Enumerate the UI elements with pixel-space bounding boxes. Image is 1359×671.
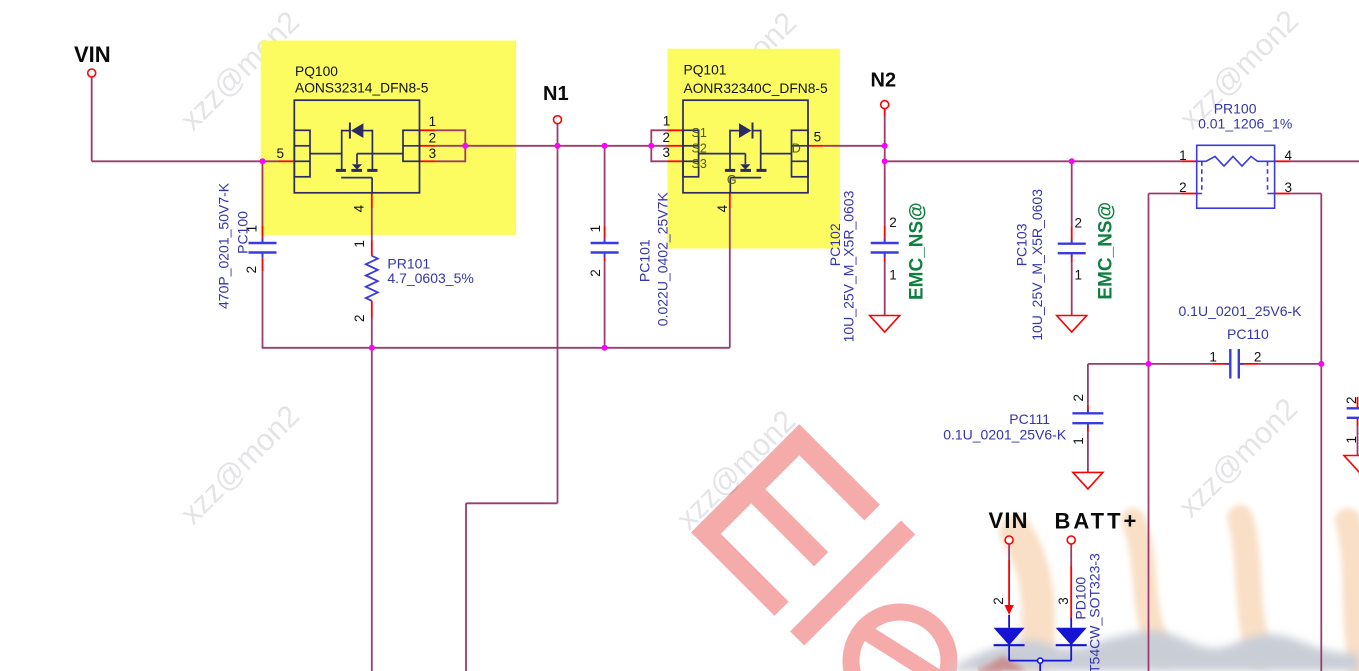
svg-text:S1: S1 <box>692 126 707 140</box>
svg-text:EMC_NS@: EMC_NS@ <box>1096 202 1117 300</box>
svg-text:PR100: PR100 <box>1214 101 1257 117</box>
svg-text:3: 3 <box>662 145 670 160</box>
svg-text:PQ100: PQ100 <box>295 64 338 79</box>
svg-text:T54CW_SOT323-3: T54CW_SOT323-3 <box>1087 553 1103 671</box>
svg-text:4: 4 <box>352 204 367 212</box>
svg-text:4: 4 <box>715 204 730 212</box>
svg-text:2: 2 <box>1071 394 1086 402</box>
svg-text:N1: N1 <box>543 83 569 105</box>
svg-text:S3: S3 <box>692 157 707 171</box>
svg-text:D: D <box>792 142 801 156</box>
svg-text:470P_0201_50V7-K: 470P_0201_50V7-K <box>216 182 232 309</box>
svg-text:VIN: VIN <box>74 42 111 67</box>
svg-text:PQ101: PQ101 <box>684 62 727 77</box>
svg-text:4: 4 <box>1285 148 1293 163</box>
svg-text:1: 1 <box>1075 268 1083 283</box>
svg-text:10U_25V_M_X5R_0603: 10U_25V_M_X5R_0603 <box>841 190 857 342</box>
svg-text:N2: N2 <box>871 70 897 92</box>
svg-text:1: 1 <box>1209 350 1217 365</box>
svg-text:VIN: VIN <box>989 508 1029 533</box>
svg-text:0.01_1206_1%: 0.01_1206_1% <box>1198 115 1292 131</box>
svg-text:1: 1 <box>1071 437 1086 445</box>
svg-text:AONS32314_DFN8-5: AONS32314_DFN8-5 <box>295 80 429 95</box>
svg-text:2: 2 <box>1075 216 1083 231</box>
svg-text:1: 1 <box>1344 436 1359 444</box>
svg-text:4.7_0603_5%: 4.7_0603_5% <box>387 270 473 286</box>
svg-text:xzz@mon2: xzz@mon2 <box>1172 392 1304 524</box>
svg-text:1: 1 <box>663 114 671 129</box>
svg-text:1: 1 <box>352 240 367 248</box>
svg-text:AONR32340C_DFN8-5: AONR32340C_DFN8-5 <box>684 81 828 96</box>
svg-text:2: 2 <box>588 269 603 277</box>
svg-text:PC101: PC101 <box>637 239 653 282</box>
svg-text:0.1U_0201_25V6-K: 0.1U_0201_25V6-K <box>1179 303 1303 319</box>
svg-text:0.1U_0201_25V6-K: 0.1U_0201_25V6-K <box>943 426 1067 442</box>
svg-text:PC103: PC103 <box>1014 223 1030 266</box>
svg-text:1: 1 <box>588 225 603 233</box>
svg-text:3: 3 <box>429 146 437 161</box>
svg-text:2: 2 <box>991 597 1006 605</box>
svg-text:2: 2 <box>889 215 897 230</box>
svg-text:1: 1 <box>429 114 437 129</box>
svg-text:0.022U_0402_25V7K: 0.022U_0402_25V7K <box>655 192 671 327</box>
svg-text:2: 2 <box>352 314 367 322</box>
svg-text:S2: S2 <box>692 142 707 156</box>
svg-text:1: 1 <box>1179 148 1187 163</box>
svg-text:2: 2 <box>244 266 259 274</box>
svg-text:BATT+: BATT+ <box>1055 509 1140 534</box>
svg-text:1: 1 <box>889 267 897 282</box>
svg-text:2: 2 <box>1344 396 1359 404</box>
svg-text:10U_25V_M_X5R_0603: 10U_25V_M_X5R_0603 <box>1029 189 1045 341</box>
svg-text:5: 5 <box>814 129 822 144</box>
svg-text:PC100: PC100 <box>235 211 251 254</box>
svg-text:2: 2 <box>1179 180 1187 195</box>
svg-text:2: 2 <box>429 130 437 145</box>
svg-text:3: 3 <box>1056 597 1071 605</box>
svg-text:xzz@mon2: xzz@mon2 <box>174 399 306 531</box>
svg-text:PC111: PC111 <box>1009 411 1050 427</box>
svg-text:3: 3 <box>1285 180 1293 195</box>
svg-text:G: G <box>727 173 737 187</box>
svg-text:2: 2 <box>1254 350 1262 365</box>
svg-text:PC110: PC110 <box>1227 326 1269 342</box>
svg-text:2: 2 <box>662 130 670 145</box>
svg-text:5: 5 <box>276 146 284 161</box>
svg-text:EMC_NS@: EMC_NS@ <box>907 202 928 300</box>
